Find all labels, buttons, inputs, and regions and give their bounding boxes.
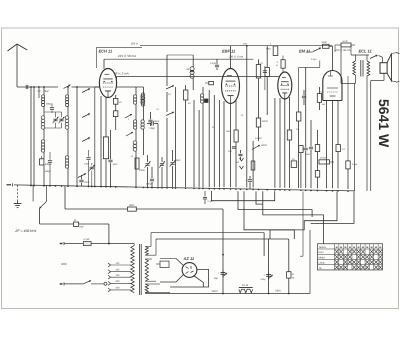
svg-text:B: B (74, 219, 76, 222)
switch speaker line (370, 55, 378, 59)
secondary taps right (145, 246, 151, 248)
svg-text:Mittel: Mittel (319, 256, 326, 259)
wire transformer bottom (355, 75, 357, 84)
transformer primary winding (131, 246, 134, 293)
trimmer right pair (90, 166, 94, 168)
output transformer primary (353, 61, 356, 75)
trimmer mid a (53, 118, 57, 120)
wire screen 98V (116, 77, 118, 80)
capacitor 64pF (190, 69, 194, 71)
electrolytic 50uF 1 (222, 270, 224, 273)
resistor 10k (209, 81, 214, 84)
capacitor 800pF low (48, 160, 52, 162)
wire bus left A (30, 87, 32, 185)
wire riser (218, 100, 220, 187)
capacitor 0.1uF below bus (204, 191, 206, 197)
svg-text:24/32: 24/32 (138, 169, 145, 172)
transformer core (360, 60, 362, 77)
coil mid (141, 93, 145, 97)
RF coil group 2 (65, 116, 69, 120)
svg-text:105 V: 105 V (131, 42, 139, 46)
antenna coil chain (43, 87, 45, 95)
wire top mid (117, 86, 144, 88)
wire riser (193, 100, 195, 187)
svg-text:Kurz: Kurz (319, 251, 325, 254)
wires em bottom (279, 98, 281, 188)
svg-text:245V: 245V (274, 290, 281, 293)
capacitor 800pF mid (50, 107, 54, 109)
TA pickup arrows (240, 158, 244, 161)
trimmer 30pF (170, 162, 174, 164)
speaker (380, 63, 387, 74)
svg-text:245 V, 58 mA: 245 V, 58 mA (117, 54, 136, 58)
junction dots ground bus left (30, 185, 32, 187)
capacitor 50n2 (302, 95, 306, 97)
wire transformer top (108, 243, 110, 245)
svg-text:190pF: 190pF (146, 183, 153, 186)
svg-text:ZF = 468 kHz: ZF = 468 kHz (14, 229, 36, 233)
tube AZ11 rectifier (182, 263, 197, 278)
switch s5 (166, 86, 174, 90)
svg-text:EBF 11: EBF 11 (222, 48, 236, 53)
wire riser em (274, 98, 276, 188)
capacitor 20pF (151, 121, 153, 125)
svg-text:110: 110 (115, 262, 119, 265)
trimmer mid b (59, 118, 63, 120)
bottom supply rail (145, 293, 310, 295)
wire mains1 (64, 243, 83, 245)
capacitor ech (108, 159, 112, 161)
svg-text:50µ: 50µ (214, 277, 219, 280)
svg-text:125: 125 (115, 269, 120, 272)
resistor top r1 (256, 65, 260, 79)
svg-text:50kΩ: 50kΩ (262, 120, 268, 123)
capacitor antenna series (25, 85, 27, 89)
svg-text:50W: 50W (61, 262, 67, 266)
wire riser a (354, 84, 356, 191)
resistor ta (251, 161, 255, 170)
antenna coil 3 (41, 140, 44, 143)
capacitor plus mid (248, 179, 252, 181)
connector left break (7, 184, 12, 186)
resistor 24k horizontal (319, 160, 330, 164)
svg-text:10nF: 10nF (84, 163, 90, 166)
capacitor B 2uF (74, 222, 79, 226)
svg-text:50kΩ: 50kΩ (261, 144, 267, 147)
svg-text:240: 240 (114, 287, 120, 290)
capacitor 70nF (79, 179, 83, 181)
resistor osc (135, 158, 139, 169)
capacitor 50nF (323, 44, 330, 48)
switch o2 (126, 132, 133, 136)
osc coil pair 1 (133, 95, 136, 98)
label box ECH 11 (97, 47, 142, 68)
switch o1 (125, 114, 132, 118)
svg-text:200 V, 36 mA: 200 V, 36 mA (334, 49, 351, 52)
resistor bleeder (288, 239, 290, 272)
chassis ground symbol (17, 185, 19, 201)
wire riser det (246, 46, 248, 68)
choke Fe W (239, 287, 253, 289)
svg-text:5 kΩ: 5 kΩ (343, 40, 348, 43)
svg-text:2µF: 2µF (79, 226, 85, 229)
resistor ecl r (291, 161, 297, 168)
resistor top r2 (265, 68, 269, 77)
svg-text:10nF: 10nF (113, 163, 119, 166)
svg-text:Lang: Lang (319, 262, 325, 265)
ground chassis bus (14, 185, 355, 191)
wire em screen (299, 66, 320, 68)
wire (156, 238, 289, 240)
top bus 245V (140, 45, 333, 47)
resistor ecl g2 (315, 171, 319, 178)
resistor anode feed (317, 94, 321, 103)
capacitor det (238, 153, 242, 155)
wire antenna input (17, 86, 58, 88)
capacitor em (263, 70, 267, 72)
wire riser right (94, 87, 96, 186)
capacitor 10nF (86, 157, 90, 159)
svg-text:MΩ: MΩ (322, 103, 326, 106)
wire stub (38, 87, 40, 98)
tube EM11 (278, 72, 292, 99)
svg-text:0,1µF: 0,1µF (84, 238, 91, 241)
switch s1 (82, 89, 90, 93)
band switch table (318, 244, 383, 270)
wire (151, 232, 264, 234)
antenna coil 1 (42, 95, 45, 98)
resistor screen ech (114, 98, 118, 104)
wires az11 (160, 258, 176, 260)
resistor right (346, 161, 350, 169)
wires ebf bottom (223, 101, 225, 187)
electrolytic 50uF 2 (268, 268, 270, 294)
resistor ecl cath (336, 145, 340, 152)
tube EBF11 (222, 69, 240, 104)
wire riser b (366, 76, 368, 191)
wire riser (208, 90, 210, 187)
output transformer secondary (367, 61, 370, 76)
resistor cathode ech (103, 137, 108, 159)
capacitor 0.1uF top (215, 64, 219, 66)
wire if1 top (166, 55, 168, 86)
svg-text:70nF: 70nF (84, 181, 90, 184)
svg-text:20pF: 20pF (149, 127, 156, 130)
capacitor .5 (148, 119, 152, 121)
wire anode 245V (103, 59, 105, 69)
trimmer pair padding (145, 163, 149, 165)
switch s2 (82, 114, 90, 118)
svg-text:1MΩ: 1MΩ (129, 204, 134, 207)
capacitor em2 (304, 147, 308, 149)
mains switch from bus (32, 185, 34, 201)
IF1 coil a (190, 67, 194, 71)
resistor 50k (256, 118, 260, 127)
svg-text:TA: TA (319, 267, 322, 270)
wire riser (213, 95, 215, 187)
wire bus left B (33, 87, 35, 185)
switch s6 (166, 112, 174, 116)
antenna (16, 45, 18, 88)
svg-text:500pF: 500pF (153, 120, 160, 123)
taps with arrows (110, 264, 131, 266)
wire riser mid2 (175, 87, 177, 187)
resistor 0.3M (297, 112, 301, 121)
svg-text:25V: 25V (242, 42, 247, 45)
junction dots ground bus (135, 187, 137, 189)
svg-text:AZ 11: AZ 11 (183, 256, 195, 261)
svg-text:TA: TA (236, 161, 239, 164)
svg-text:1Ω: 1Ω (296, 128, 299, 131)
svg-text:50nF: 50nF (322, 41, 328, 44)
speaker frame marks (396, 52, 399, 53)
mains plug bottom (60, 283, 63, 285)
resistor 1M line (64, 186, 66, 209)
svg-text:150: 150 (115, 274, 120, 277)
svg-text:5kΩ: 5kΩ (306, 153, 310, 156)
wire (268, 239, 270, 268)
svg-text:220: 220 (114, 280, 120, 283)
svg-text:4MΩ: 4MΩ (266, 48, 271, 51)
capacitor ecl (309, 146, 313, 148)
svg-text:240V: 240V (211, 290, 218, 293)
osc coil pair 2 (133, 120, 136, 123)
IF1 coil b (200, 94, 203, 97)
transformer core (138, 244, 140, 295)
tube ECL11 (323, 70, 342, 100)
resistor if (184, 90, 188, 100)
wire to table (309, 230, 311, 294)
svg-text:98 V, 2 mA: 98 V, 2 mA (114, 71, 129, 75)
mains switch (83, 281, 91, 284)
switch antenna (64, 85, 71, 89)
svg-text:0,1µF: 0,1µF (311, 58, 317, 61)
wire link mid (44, 111, 62, 113)
transformer secondary windings (145, 247, 148, 256)
RF coil group 3 (65, 156, 68, 159)
svg-text:+50µ: +50µ (260, 278, 266, 281)
tube ECH11 (99, 69, 116, 98)
switch s3 (82, 138, 90, 142)
capacitor if b (205, 99, 208, 102)
switch s4 (78, 174, 86, 178)
capacitor 190pF (150, 178, 154, 180)
wire riser (76, 87, 78, 186)
svg-text:800pF: 800pF (45, 170, 52, 173)
fuse resistor (83, 241, 91, 245)
svg-text:24 kΩ: 24 kΩ (319, 157, 326, 160)
svg-text:Fe W: Fe W (242, 284, 249, 287)
svg-text:5641 W: 5641 W (376, 99, 392, 148)
wire to speaker (379, 56, 383, 58)
wire riser mid1 (166, 92, 168, 112)
wires tube ech bottom (105, 97, 107, 137)
svg-text:Tasten: Tasten (319, 246, 327, 249)
wire ebf anode to bus (230, 46, 232, 69)
wire hv riser (222, 255, 224, 294)
wire top to transformer (351, 54, 369, 56)
wire mains2 (64, 283, 83, 285)
svg-text:EM 11: EM 11 (299, 48, 311, 53)
wire grid ech (95, 86, 100, 88)
dial lamp (160, 261, 169, 267)
wire (67, 87, 69, 95)
wire (167, 54, 193, 56)
resistor em cath (287, 130, 291, 140)
svg-text:H: H (292, 273, 294, 276)
wires speaker bottom (383, 73, 385, 80)
svg-text:ECH 11: ECH 11 (99, 48, 113, 53)
resistor em 1M (273, 46, 278, 56)
mains plug top (60, 243, 63, 245)
svg-text:2kΩ: 2kΩ (225, 130, 230, 133)
capacitor 940pF (40, 159, 44, 165)
svg-text:0,1µF: 0,1µF (352, 163, 358, 166)
grid stopper (341, 43, 351, 47)
resistor ebf cathode (234, 130, 238, 142)
svg-text:ECL 11: ECL 11 (359, 48, 373, 53)
RF coil group 1 (66, 95, 69, 98)
antenna coil 2 (41, 116, 45, 120)
switch ecl (313, 48, 321, 52)
wire riser (198, 110, 200, 187)
svg-text:800pF: 800pF (46, 103, 53, 106)
volume potentiometer (252, 141, 254, 188)
svg-text:940pF: 940pF (45, 163, 52, 166)
resistor em 4M (281, 60, 285, 68)
osc coil 3 (133, 141, 137, 145)
resistor ecl grid (315, 145, 319, 152)
wires ecl bottom (326, 101, 328, 189)
capacitor 100pF det (232, 146, 236, 148)
svg-text:0,5MΩ: 0,5MΩ (255, 137, 262, 140)
svg-text:0,1µF: 0,1µF (210, 62, 217, 65)
resistor em2 (299, 146, 303, 153)
nested wires to band switch table (211, 191, 274, 201)
